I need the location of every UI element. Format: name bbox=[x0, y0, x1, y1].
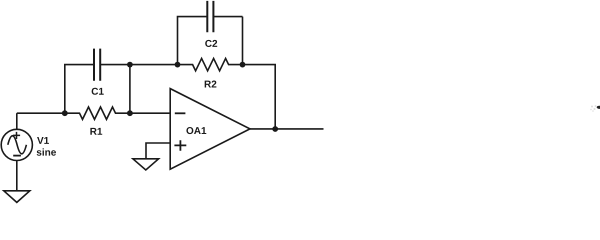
label sine bbox=[37, 148, 56, 155]
wire: R2 right node to output node bbox=[243, 65, 276, 129]
capacitor C1 right lead wire bbox=[100, 64, 130, 66]
wire: non-inverting input to ground bbox=[146, 143, 170, 159]
label V1 bbox=[37, 137, 49, 144]
wire: C2 right stub down to R2 right node bbox=[242, 17, 244, 65]
capacitor C2 plates bbox=[207, 1, 213, 32]
wire: V1 top lead up bbox=[16, 113, 18, 129]
junction dot R1 right on main line bbox=[127, 110, 133, 116]
wire: V1 bottom lead down bbox=[16, 160, 18, 190]
V1 sine waveform bbox=[8, 136, 27, 154]
resistor R2 bbox=[178, 58, 243, 70]
ground below non-inverting input bbox=[133, 159, 159, 170]
label R2 bbox=[205, 81, 217, 88]
wire: C1 right stub down to R1 right node bbox=[129, 65, 131, 114]
op-amp OA1 bbox=[170, 89, 250, 170]
label C1 bbox=[92, 88, 104, 95]
capacitor C1 plates bbox=[94, 49, 100, 81]
capacitor C1 left stub wire bbox=[65, 65, 94, 114]
wire: op-amp output bbox=[250, 128, 324, 130]
junction dot R2 right node bbox=[240, 62, 246, 68]
right edge faint speckles bbox=[590, 105, 596, 112]
label C2 bbox=[205, 40, 217, 47]
ground below V1 bbox=[4, 191, 30, 203]
junction dot output node bbox=[272, 126, 278, 132]
junction dot R2 left node bbox=[175, 62, 181, 68]
capacitor C2 right lead wire bbox=[213, 16, 242, 18]
resistor R1 bbox=[65, 107, 130, 119]
wire: top line from C1 node to R2 left node bbox=[130, 64, 178, 66]
capacitor C2 left stub wire bbox=[178, 17, 208, 65]
op-amp inverting input minus sign bbox=[175, 112, 186, 114]
right edge mark bbox=[597, 106, 600, 109]
label OA1 bbox=[186, 127, 206, 134]
junction dot input node bbox=[62, 110, 68, 116]
wire: R1 right node to op-amp inverting input bbox=[130, 112, 170, 114]
op-amp non-inverting input plus sign bbox=[174, 140, 186, 151]
voltage source V1 bbox=[1, 129, 32, 160]
V1 plus sign bbox=[13, 132, 20, 139]
junction dot C1 right on top line bbox=[127, 62, 133, 68]
wire: input node horizontal to R1 bbox=[17, 112, 65, 114]
V1 minus sign bbox=[13, 155, 21, 157]
label R1 bbox=[90, 128, 102, 135]
